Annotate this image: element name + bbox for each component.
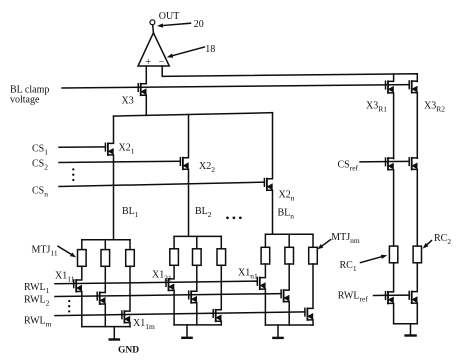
MTJ cell resistor group3 col1 xyxy=(264,234,266,247)
svg-text:voltage: voltage xyxy=(10,95,40,106)
MTJ cell resistor group2 col2 xyxy=(196,236,198,248)
wire CSn xyxy=(59,182,264,186)
ground group3 xyxy=(277,325,279,337)
transistor X3_R1 xyxy=(385,81,387,89)
transistor X2_2 xyxy=(179,158,181,166)
transistor X1 group3 row1 xyxy=(256,278,258,286)
transistor X1 group2 row1 xyxy=(165,279,167,287)
transistor X1 group3 row3 xyxy=(304,308,306,316)
transistor CS_ref R1 xyxy=(385,158,387,166)
wire bus rail to column selectors xyxy=(114,113,273,116)
MTJ cell resistor group2 col1 xyxy=(173,236,175,248)
svg-text:GND: GND xyxy=(118,345,139,355)
MTJ cell resistor group1 col2 xyxy=(104,240,106,250)
wire CS_ref xyxy=(360,160,409,163)
svg-text:20: 20 xyxy=(194,19,204,30)
transistor RWL_ref R1 xyxy=(385,292,387,300)
node OUT terminal xyxy=(150,20,155,25)
dots column ellipsis xyxy=(226,216,229,219)
dots RWL ellipsis xyxy=(68,300,70,302)
wire group1 bottom rail xyxy=(82,326,130,328)
wire RWL1 xyxy=(55,281,257,284)
transistor X3_R2 xyxy=(408,81,410,89)
wire op-amp + input to X3 drain xyxy=(145,66,147,83)
wire bit-line column 3 top rail xyxy=(265,233,313,235)
transistor X2_n xyxy=(263,179,265,187)
transistor X1 group2 row3 xyxy=(212,310,214,318)
ground group1 xyxy=(113,327,115,339)
wire RWL2 xyxy=(55,294,281,297)
transistor X1 group3 row2 xyxy=(280,290,282,298)
wire CS1 xyxy=(59,146,105,148)
transistor X1 group1 row3 xyxy=(121,311,123,319)
op-amp comparator 18 xyxy=(138,33,169,66)
wire RWLm xyxy=(55,312,305,316)
wire bit-line column 1 top rail xyxy=(82,239,130,241)
MTJ cell resistor group2 col3 xyxy=(220,236,222,248)
wire op-amp - input to reference columns xyxy=(162,66,417,81)
svg-text:OUT: OUT xyxy=(159,11,180,22)
ground reference xyxy=(410,324,412,335)
transistor X2_1 xyxy=(104,143,106,151)
label MTJnm arrow xyxy=(322,240,330,246)
dots CS ellipsis xyxy=(72,168,74,170)
transistor X1 group2 row2 xyxy=(188,291,190,299)
MTJ cell resistor group1 col1 xyxy=(81,240,83,250)
transistor X1 group1 row1 xyxy=(73,280,75,288)
reference cell RC2 xyxy=(413,246,421,263)
label 18 arrow to op-amp xyxy=(173,47,205,56)
wire group2 bottom rail xyxy=(174,324,221,326)
wire BL clamp voltage line xyxy=(62,85,409,88)
transistor X3 xyxy=(137,84,139,92)
wire RWL_ref xyxy=(374,294,410,296)
svg-text:18: 18 xyxy=(205,44,215,55)
transistor RWL_ref R2 xyxy=(408,292,410,300)
MTJ cell resistor group3 col3 xyxy=(312,234,314,247)
wire group3 bottom rail xyxy=(265,324,313,326)
svg-text:X3: X3 xyxy=(122,96,134,107)
wire bit-line column 2 top rail xyxy=(174,235,221,237)
MTJ cell resistor group3 col2 xyxy=(288,234,290,247)
label 20 arrow to OUT xyxy=(163,23,191,25)
transistor CS_ref R2 xyxy=(408,158,410,166)
ground group2 xyxy=(186,325,188,337)
label MTJ11 arrow xyxy=(58,246,71,254)
MTJ cell resistor group1 col3 xyxy=(129,240,131,250)
reference cell RC1 xyxy=(389,246,397,263)
wire CS2 xyxy=(59,161,180,162)
transistor X1 group1 row2 xyxy=(96,292,98,300)
wire reference bottom rail xyxy=(394,323,418,325)
